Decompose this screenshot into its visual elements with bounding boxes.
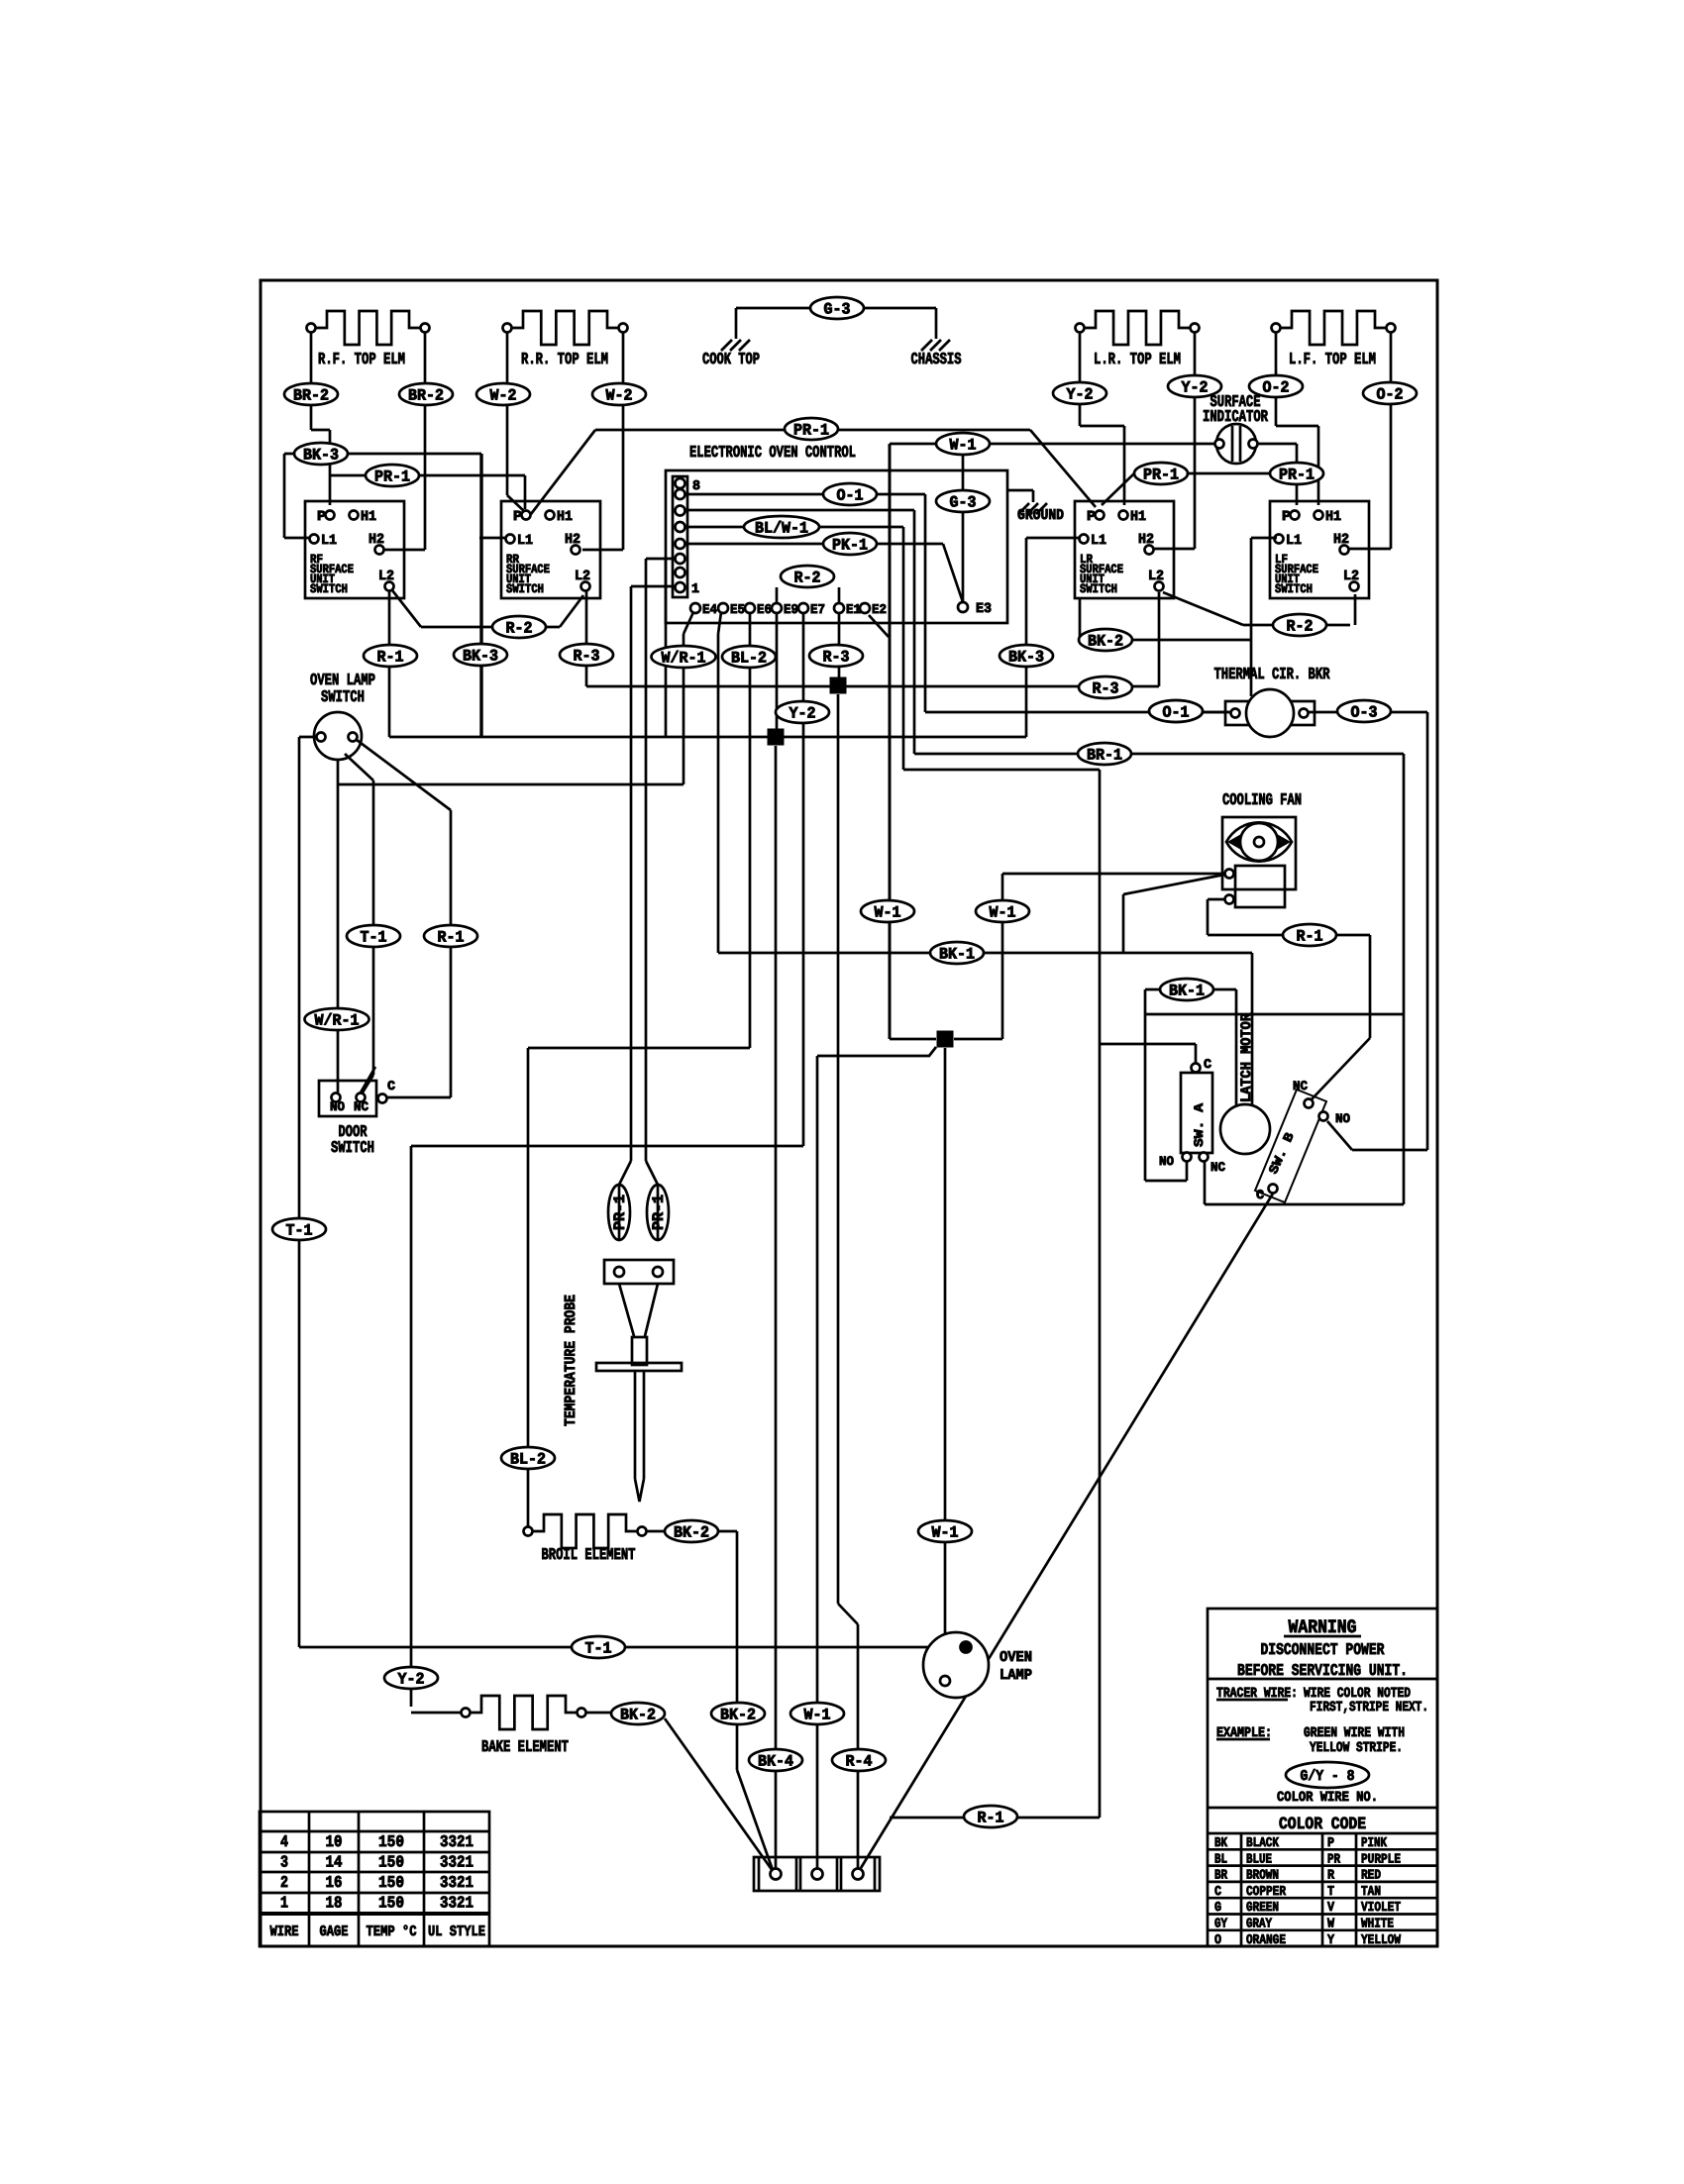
svg-text:3321: 3321: [440, 1832, 474, 1851]
svg-text:BEFORE SERVICING UNIT.: BEFORE SERVICING UNIT.: [1237, 1661, 1408, 1680]
svg-text:P: P: [1327, 1836, 1334, 1851]
svg-text:BAKE ELEMENT: BAKE ELEMENT: [481, 1737, 569, 1756]
svg-text:FIRST,STRIPE NEXT.: FIRST,STRIPE NEXT.: [1310, 1700, 1428, 1716]
svg-text:H1: H1: [1325, 509, 1341, 525]
svg-text:E9: E9: [784, 603, 798, 618]
svg-text:BLUE: BLUE: [1246, 1852, 1272, 1867]
svg-text:O-1: O-1: [1163, 704, 1190, 722]
svg-text:TEMPERATURE PROBE: TEMPERATURE PROBE: [562, 1295, 579, 1426]
svg-text:W-1: W-1: [932, 1524, 959, 1542]
svg-text:PR-1: PR-1: [793, 422, 829, 440]
svg-text:W-2: W-2: [606, 387, 633, 405]
svg-text:L1: L1: [517, 533, 533, 549]
svg-text:SWITCH: SWITCH: [310, 582, 348, 596]
svg-text:THERMAL CIR. BKR: THERMAL CIR. BKR: [1214, 665, 1330, 683]
svg-text:O: O: [1214, 1933, 1221, 1948]
svg-text:H1: H1: [361, 509, 376, 525]
svg-text:BK-4: BK-4: [758, 1753, 793, 1771]
svg-text:YELLOW: YELLOW: [1361, 1933, 1402, 1948]
svg-text:L2: L2: [1343, 569, 1359, 584]
svg-text:150: 150: [378, 1873, 404, 1892]
svg-text:O-2: O-2: [1377, 386, 1404, 404]
svg-text:V: V: [1327, 1901, 1335, 1916]
svg-text:E3: E3: [976, 601, 992, 617]
svg-text:R.R. TOP ELM: R.R. TOP ELM: [521, 350, 608, 368]
svg-text:NC: NC: [354, 1099, 368, 1114]
svg-text:P: P: [317, 509, 326, 525]
svg-text:VIOLET: VIOLET: [1361, 1901, 1401, 1916]
svg-text:O-3: O-3: [1351, 704, 1378, 722]
svg-text:BROWN: BROWN: [1246, 1869, 1279, 1884]
svg-text:BK-3: BK-3: [303, 447, 339, 465]
svg-text:R: R: [1327, 1869, 1335, 1884]
svg-text:C: C: [387, 1079, 395, 1093]
svg-text:GAGE: GAGE: [320, 1924, 349, 1940]
svg-text:INDICATOR: INDICATOR: [1203, 407, 1268, 426]
svg-text:NO: NO: [1335, 1111, 1350, 1126]
svg-text:Y: Y: [1327, 1933, 1335, 1948]
svg-text:ORANGE: ORANGE: [1246, 1933, 1286, 1948]
svg-text:H2: H2: [1138, 532, 1154, 548]
svg-text:Y-2: Y-2: [1067, 386, 1094, 404]
svg-text:R-4: R-4: [846, 1753, 873, 1771]
svg-text:H1: H1: [557, 509, 573, 525]
svg-text:T-1: T-1: [585, 1640, 612, 1658]
svg-text:YELLOW STRIPE.: YELLOW STRIPE.: [1310, 1740, 1403, 1756]
svg-text:L2: L2: [1148, 569, 1164, 584]
svg-text:T: T: [1327, 1885, 1334, 1900]
svg-text:8: 8: [692, 479, 700, 494]
svg-text:E4: E4: [702, 603, 717, 618]
svg-text:LAMP: LAMP: [1000, 1667, 1032, 1684]
svg-text:BK-2: BK-2: [720, 1707, 756, 1724]
svg-text:P: P: [1282, 509, 1291, 525]
svg-text:W: W: [1327, 1918, 1335, 1932]
svg-text:SWITCH: SWITCH: [331, 1138, 374, 1157]
svg-text:CHASSIS: CHASSIS: [911, 350, 962, 368]
svg-text:COLOR WIRE NO.: COLOR WIRE NO.: [1277, 1790, 1378, 1806]
svg-text:BROIL ELEMENT: BROIL ELEMENT: [542, 1545, 636, 1564]
svg-text:16: 16: [326, 1873, 343, 1892]
svg-text:PR-1: PR-1: [1279, 467, 1315, 484]
svg-text:NO: NO: [1159, 1154, 1174, 1169]
svg-text:H2: H2: [368, 532, 384, 548]
svg-text:Y-2: Y-2: [789, 705, 816, 723]
svg-text:W-2: W-2: [490, 387, 517, 405]
svg-text:BK-3: BK-3: [463, 648, 498, 666]
svg-text:R-1: R-1: [438, 929, 465, 947]
svg-text:T-1: T-1: [361, 929, 387, 947]
svg-text:C: C: [1214, 1885, 1221, 1900]
svg-text:PR: PR: [1327, 1852, 1341, 1867]
svg-text:L.R. TOP ELM: L.R. TOP ELM: [1094, 350, 1181, 368]
svg-text:G-3: G-3: [824, 301, 851, 319]
svg-text:COPPER: COPPER: [1246, 1885, 1287, 1900]
svg-text:COOK TOP: COOK TOP: [702, 350, 760, 368]
svg-text:150: 150: [378, 1894, 404, 1913]
svg-text:Y-2: Y-2: [398, 1671, 425, 1689]
svg-text:10: 10: [326, 1832, 343, 1851]
svg-text:BLACK: BLACK: [1246, 1836, 1280, 1851]
svg-text:NC: NC: [1210, 1160, 1225, 1175]
svg-text:H2: H2: [565, 532, 580, 548]
svg-text:E2: E2: [872, 603, 887, 618]
svg-text:BR-1: BR-1: [1087, 747, 1122, 765]
svg-text:E6: E6: [757, 603, 772, 618]
svg-text:SWITCH: SWITCH: [506, 582, 544, 596]
svg-text:L2: L2: [378, 569, 394, 584]
svg-text:R-2: R-2: [1287, 618, 1314, 636]
svg-text:GREEN WIRE WITH: GREEN WIRE WITH: [1304, 1725, 1405, 1741]
svg-text:SWITCH: SWITCH: [1275, 582, 1313, 596]
svg-text:2: 2: [280, 1873, 288, 1892]
svg-text:W/R-1: W/R-1: [662, 650, 706, 668]
svg-text:150: 150: [378, 1853, 404, 1872]
svg-text:OVEN: OVEN: [1000, 1649, 1032, 1666]
svg-text:BR-2: BR-2: [293, 387, 329, 405]
svg-text:4: 4: [280, 1832, 288, 1851]
svg-text:TEMP °C: TEMP °C: [367, 1924, 417, 1940]
svg-text:R-1: R-1: [377, 649, 404, 667]
svg-text:GROUND: GROUND: [1017, 507, 1064, 524]
svg-text:BK-2: BK-2: [674, 1524, 709, 1542]
svg-text:1: 1: [691, 582, 699, 597]
svg-text:BR: BR: [1214, 1869, 1228, 1884]
svg-text:R-3: R-3: [574, 648, 600, 666]
svg-text:W-1: W-1: [990, 904, 1016, 922]
svg-text:R-2: R-2: [794, 570, 821, 587]
svg-text:SWITCH: SWITCH: [321, 687, 365, 706]
svg-text:O-1: O-1: [837, 487, 864, 505]
svg-text:PINK: PINK: [1361, 1836, 1388, 1851]
svg-text:RED: RED: [1361, 1869, 1381, 1884]
svg-text:E7: E7: [810, 603, 825, 618]
svg-text:BK: BK: [1214, 1836, 1228, 1851]
svg-text:3321: 3321: [440, 1853, 474, 1872]
svg-text:COOLING FAN: COOLING FAN: [1222, 790, 1302, 809]
svg-text:R-1: R-1: [1297, 928, 1323, 946]
svg-text:PR-1: PR-1: [1143, 467, 1179, 484]
svg-text:NO: NO: [330, 1099, 345, 1114]
svg-text:C: C: [1204, 1057, 1211, 1072]
svg-text:PR-1: PR-1: [374, 468, 410, 486]
svg-text:BL-2: BL-2: [510, 1451, 546, 1469]
svg-text:H1: H1: [1130, 509, 1146, 525]
svg-text:BK-1: BK-1: [1169, 983, 1205, 1000]
svg-text:BL-2: BL-2: [731, 650, 767, 668]
svg-text:3: 3: [280, 1853, 288, 1872]
svg-text:P: P: [513, 509, 522, 525]
svg-text:G/Y - 8: G/Y - 8: [1301, 1768, 1355, 1785]
svg-text:W/R-1: W/R-1: [315, 1012, 360, 1030]
svg-text:W-1: W-1: [875, 904, 901, 922]
svg-text:E1: E1: [846, 603, 861, 618]
svg-text:PK-1: PK-1: [832, 537, 868, 555]
svg-text:BK-2: BK-2: [1088, 633, 1123, 651]
svg-text:L.F. TOP ELM: L.F. TOP ELM: [1289, 350, 1376, 368]
svg-text:GREEN: GREEN: [1246, 1901, 1279, 1916]
svg-text:LATCH MOTOR: LATCH MOTOR: [1239, 1013, 1255, 1102]
svg-text:E5: E5: [730, 603, 745, 618]
svg-text:R-2: R-2: [506, 620, 533, 638]
svg-text:WIRE: WIRE: [270, 1924, 299, 1940]
svg-text:TAN: TAN: [1361, 1885, 1381, 1900]
svg-text:UL STYLE: UL STYLE: [428, 1924, 485, 1940]
svg-text:L1: L1: [1091, 533, 1106, 549]
svg-text:3321: 3321: [440, 1894, 474, 1913]
svg-text:WHITE: WHITE: [1361, 1918, 1394, 1932]
svg-text:BR-2: BR-2: [408, 387, 444, 405]
svg-text:COLOR CODE: COLOR CODE: [1279, 1816, 1366, 1834]
svg-text:O-2: O-2: [1263, 379, 1290, 397]
svg-text:PURPLE: PURPLE: [1361, 1852, 1401, 1867]
svg-text:18: 18: [326, 1894, 343, 1913]
svg-text:GRAY: GRAY: [1246, 1918, 1273, 1932]
svg-text:R.F. TOP ELM: R.F. TOP ELM: [318, 350, 405, 368]
svg-text:ELECTRONIC OVEN CONTROL: ELECTRONIC OVEN CONTROL: [689, 443, 856, 462]
svg-text:W-1: W-1: [804, 1707, 831, 1724]
svg-text:1: 1: [280, 1894, 288, 1913]
svg-text:BK-1: BK-1: [939, 946, 975, 964]
svg-text:W-1: W-1: [950, 437, 977, 455]
svg-text:G: G: [1214, 1901, 1221, 1916]
svg-text:BL: BL: [1214, 1852, 1227, 1867]
svg-text:SW. A: SW. A: [1192, 1103, 1207, 1147]
svg-text:NC: NC: [1293, 1079, 1308, 1093]
svg-text:3321: 3321: [440, 1873, 474, 1892]
svg-text:150: 150: [378, 1832, 404, 1851]
svg-text:SWITCH: SWITCH: [1080, 582, 1117, 596]
svg-text:GY: GY: [1214, 1918, 1228, 1932]
svg-text:14: 14: [326, 1853, 343, 1872]
svg-text:BK-3: BK-3: [1008, 649, 1044, 667]
svg-text:R-3: R-3: [823, 649, 850, 667]
svg-text:Y-2: Y-2: [1182, 379, 1209, 397]
svg-text:R-1: R-1: [978, 1810, 1004, 1827]
svg-text:DISCONNECT POWER: DISCONNECT POWER: [1261, 1640, 1385, 1659]
svg-text:L1: L1: [321, 533, 337, 549]
svg-text:L1: L1: [1286, 533, 1302, 549]
svg-text:BL/W-1: BL/W-1: [755, 520, 808, 538]
svg-text:T-1: T-1: [286, 1222, 313, 1240]
svg-text:C: C: [1256, 1188, 1264, 1202]
svg-text:G-3: G-3: [950, 494, 977, 512]
svg-text:R-3: R-3: [1093, 680, 1119, 698]
svg-text:P: P: [1087, 509, 1096, 525]
svg-text:BK-2: BK-2: [620, 1707, 656, 1724]
svg-text:L2: L2: [575, 569, 590, 584]
svg-text:H2: H2: [1333, 532, 1349, 548]
